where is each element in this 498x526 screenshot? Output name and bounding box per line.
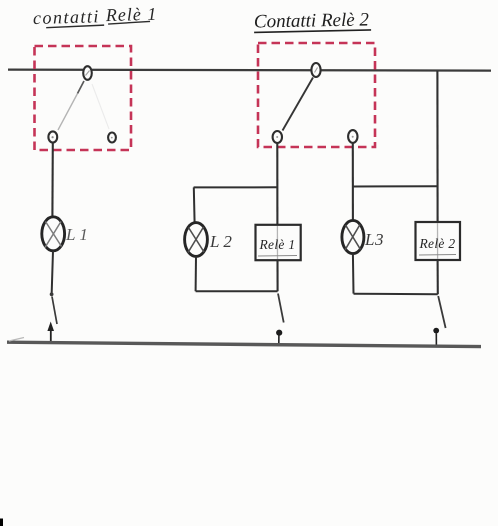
wire: top bus down to relay coil Relè 2 xyxy=(436,71,438,222)
wire: bottom joint horizontal to switch S3 xyxy=(354,293,438,295)
wire: K2a terminal down to node A xyxy=(276,143,278,224)
switch S3 xyxy=(433,296,445,347)
contact K2 blade xyxy=(283,78,314,131)
lamp L2 xyxy=(185,223,208,257)
svg-text:L3: L3 xyxy=(364,230,384,249)
contact box 1 (dashed, Relè 1 contacts) xyxy=(35,46,132,150)
contact K1 blade (dark near pivot, fading pencil) xyxy=(78,81,85,94)
switch S1 (push contact above bottom bus) xyxy=(47,292,57,342)
wire: tap down to lamp L2 xyxy=(193,187,196,223)
contact K2a terminal xyxy=(273,131,282,143)
top supply bus wire xyxy=(8,70,491,71)
faint erased stroke in contact box 1 xyxy=(92,84,109,129)
relay coil Relè 1 xyxy=(256,225,301,260)
lamp L3 xyxy=(342,220,364,253)
pen flick at left end of bottom bus xyxy=(9,338,24,342)
svg-text:L 2: L 2 xyxy=(209,232,232,251)
wire: bottom joint horizontal to switch S2 xyxy=(196,290,278,292)
wire: lamp L1 to switch S1 xyxy=(52,251,53,293)
wire: node B horizontal tap to relay 2 branch xyxy=(353,185,437,187)
wire: lamp L3 down to bottom joint xyxy=(352,254,355,294)
contact K1 NC terminal xyxy=(108,133,116,143)
wire through relay coil 1 (below box to switch joint) xyxy=(276,260,278,291)
contact K2b terminal xyxy=(348,130,357,143)
lamp L1 xyxy=(42,217,65,251)
switch S2 xyxy=(276,294,284,345)
contact box 2 (dashed, Relè 2 contacts) xyxy=(258,43,375,147)
svg-text:L 1: L 1 xyxy=(65,225,88,244)
wire: lamp L2 down to bottom joint xyxy=(195,256,197,291)
svg-text:contatti: contatti xyxy=(33,6,101,28)
relay coil Relè 2 xyxy=(416,222,461,260)
title: contatti Relè 1 xyxy=(33,4,158,28)
scan artifact: black mark bottom-left corner xyxy=(0,519,3,526)
title: Contatti Relè 2 xyxy=(254,9,371,32)
contact K1 common terminal xyxy=(83,66,92,80)
bottom return bus wire xyxy=(7,342,481,346)
svg-text:Relè 1: Relè 1 xyxy=(259,237,296,252)
wire: K1 NO terminal down to lamp L1 xyxy=(51,143,53,217)
contact K2 common terminal xyxy=(311,63,320,77)
svg-text:Relè 2: Relè 2 xyxy=(419,236,456,251)
wire: node A horizontal tap to lamp L2 xyxy=(194,186,277,188)
svg-text:Contatti Relè 2: Contatti Relè 2 xyxy=(254,9,370,32)
wire through relay coil 2 (below box to switch joint) xyxy=(437,260,439,294)
wire: K2b terminal down to lamp L3 xyxy=(352,143,354,221)
contact K1 NO terminal xyxy=(48,131,57,142)
